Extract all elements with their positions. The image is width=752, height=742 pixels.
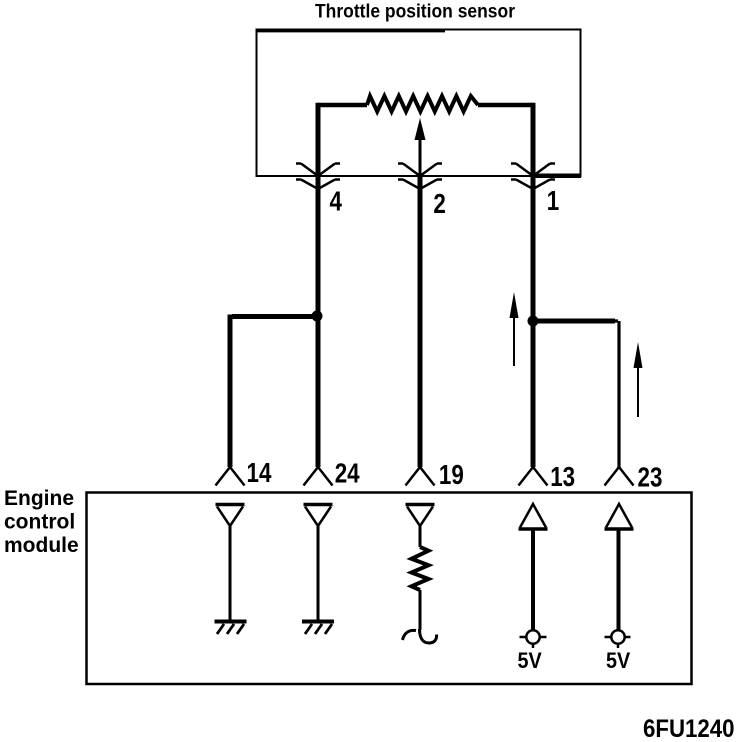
svg-text:24: 24 [335, 458, 360, 489]
svg-text:2: 2 [433, 189, 445, 220]
svg-text:module: module [4, 534, 79, 557]
svg-text:control: control [4, 511, 75, 534]
svg-text:5V: 5V [518, 649, 542, 673]
svg-text:1: 1 [547, 186, 559, 217]
svg-text:14: 14 [247, 458, 272, 489]
svg-text:19: 19 [439, 460, 464, 491]
svg-text:13: 13 [550, 462, 575, 493]
svg-text:4: 4 [330, 186, 342, 217]
svg-text:Throttle position sensor: Throttle position sensor [315, 0, 515, 22]
svg-text:23: 23 [638, 462, 663, 493]
svg-text:6FU1240: 6FU1240 [643, 716, 735, 742]
svg-text:Engine: Engine [4, 487, 74, 510]
svg-text:5V: 5V [606, 649, 630, 673]
